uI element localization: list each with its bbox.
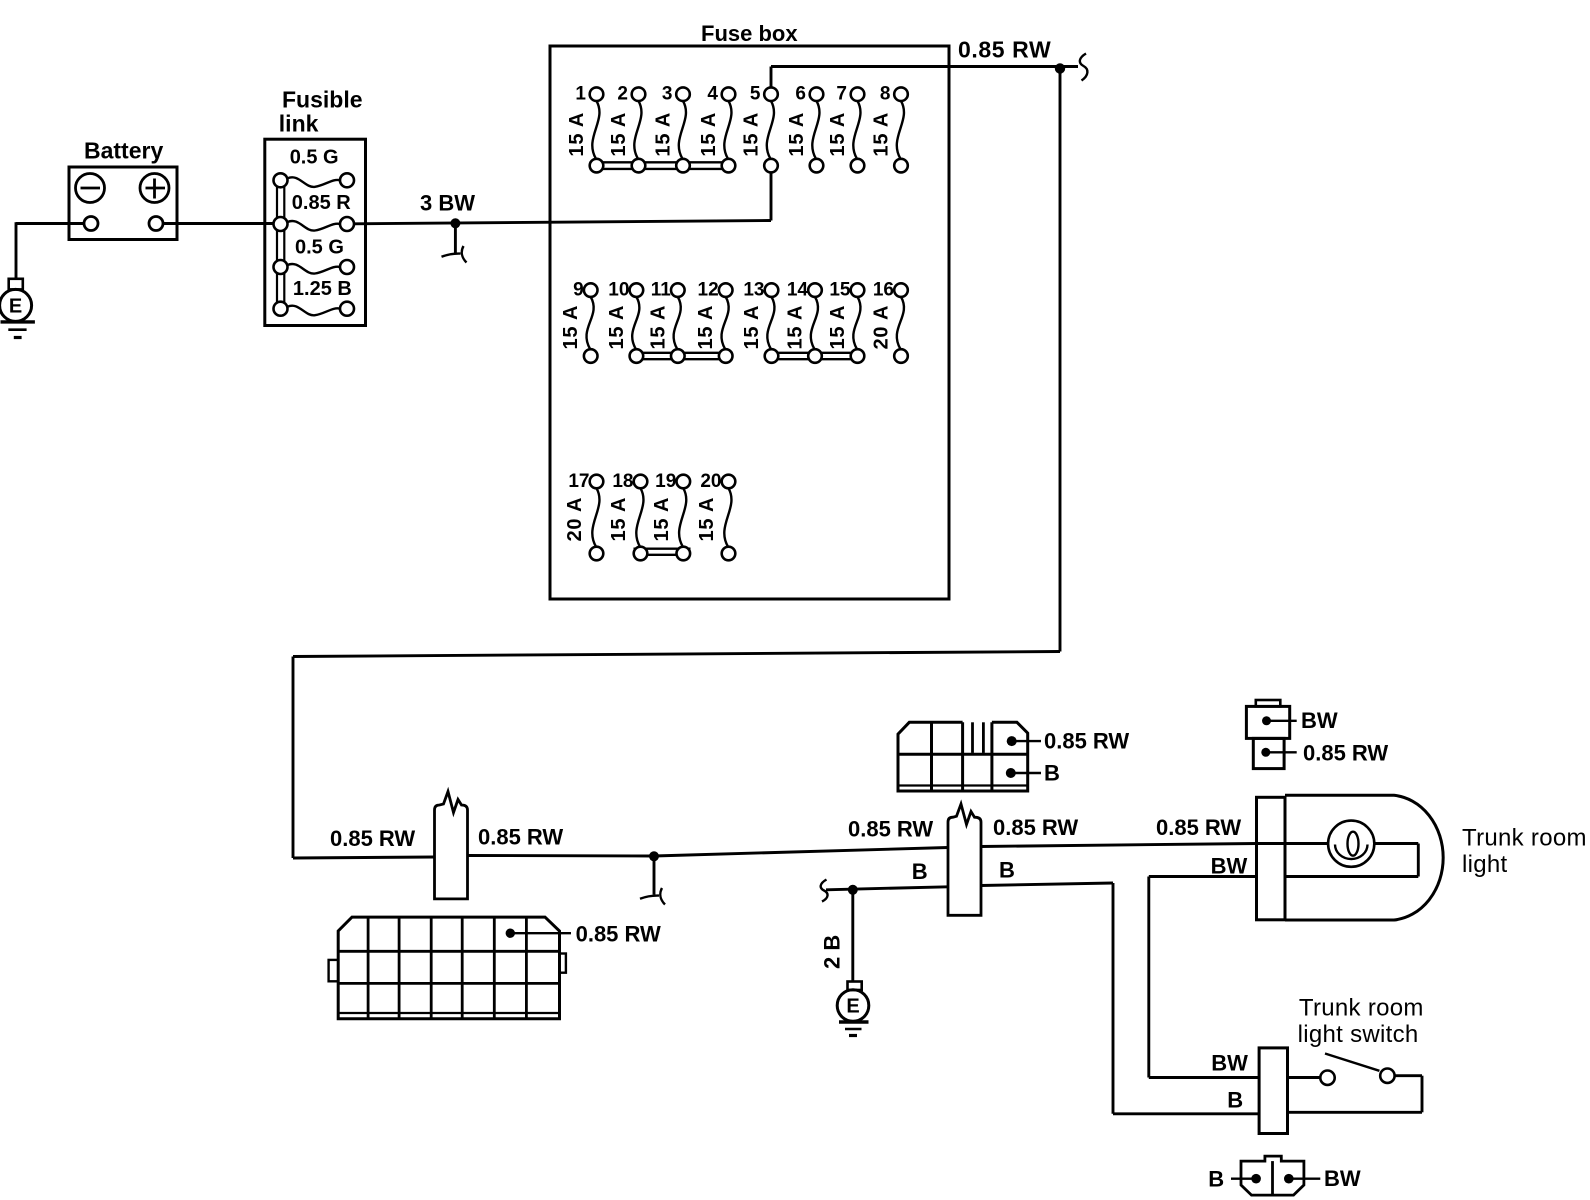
- battery: [69, 138, 177, 240]
- svg-text:15 A: 15 A: [871, 112, 893, 157]
- wire: [1288, 1076, 1423, 1113]
- fuse 3 (15 A): [653, 84, 690, 173]
- svg-text:15 A: 15 A: [566, 112, 588, 157]
- svg-text:20 A: 20 A: [564, 497, 586, 542]
- svg-text:light switch: light switch: [1298, 1021, 1419, 1048]
- svg-text:15 A: 15 A: [608, 112, 630, 157]
- svg-text:15 A: 15 A: [560, 305, 582, 350]
- in-line connector C2: [948, 804, 981, 915]
- leader: [1289, 1177, 1321, 1179]
- svg-text:19: 19: [655, 471, 676, 492]
- svg-text:BW: BW: [1211, 1051, 1248, 1076]
- svg-text:0.85 R: 0.85 R: [292, 192, 351, 214]
- svg-text:15 A: 15 A: [606, 305, 628, 350]
- svg-text:0.85 RW: 0.85 RW: [993, 815, 1078, 840]
- leader: [510, 932, 571, 934]
- pin dot BW: [1284, 1174, 1294, 1184]
- svg-text:4: 4: [707, 84, 718, 105]
- svg-text:link: link: [279, 111, 319, 137]
- switch contact 1: [1320, 1071, 1334, 1085]
- svg-text:E: E: [9, 296, 22, 318]
- fuse 17 (20 A): [564, 471, 603, 560]
- label Trunk room light: [1462, 825, 1587, 879]
- svg-text:15 A: 15 A: [741, 112, 763, 157]
- leader: [1231, 1177, 1256, 1179]
- junction dot: [848, 885, 858, 895]
- wire: [293, 67, 1060, 859]
- svg-text:B: B: [1044, 761, 1060, 786]
- svg-text:5: 5: [750, 84, 761, 105]
- svg-text:18: 18: [612, 471, 633, 492]
- fuse box: [550, 21, 949, 599]
- svg-text:0.85 RW: 0.85 RW: [848, 817, 933, 842]
- svg-text:0.85 RW: 0.85 RW: [478, 825, 563, 850]
- ground E (battery): [0, 279, 35, 338]
- svg-text:15 A: 15 A: [698, 112, 720, 157]
- svg-text:B: B: [912, 859, 928, 884]
- trunk room light switch connector: [1259, 1048, 1287, 1134]
- fuse 7 (15 A): [827, 84, 864, 173]
- svg-text:2: 2: [617, 84, 628, 105]
- fusible link element 0.5 G: [274, 237, 355, 275]
- harness continuation curl: [1080, 54, 1088, 81]
- fuse 18 (15 A): [608, 471, 647, 560]
- wire 0.85 RW fuse box output: [771, 65, 1078, 68]
- switch contact 2: [1380, 1069, 1394, 1083]
- fuse 12 (15 A): [695, 280, 732, 363]
- junction dot: [1055, 63, 1065, 73]
- fuse 10 (15 A): [606, 280, 643, 363]
- fuse 20 (15 A): [696, 471, 735, 560]
- svg-text:0.85 RW: 0.85 RW: [1303, 741, 1388, 766]
- wire B to switch: [981, 883, 1259, 1114]
- svg-text:15 A: 15 A: [785, 305, 807, 350]
- svg-text:B: B: [1208, 1167, 1224, 1192]
- in-line connector C1: [435, 792, 468, 899]
- fuse 14 (15 A): [785, 280, 822, 363]
- connector stub symbol: [640, 856, 665, 904]
- svg-text:Fusible: Fusible: [282, 87, 363, 113]
- svg-text:3: 3: [662, 84, 673, 105]
- svg-text:Trunk room: Trunk room: [1462, 825, 1587, 852]
- pin dot: [1007, 736, 1017, 746]
- svg-text:1: 1: [575, 84, 586, 105]
- svg-text:1.25 B: 1.25 B: [293, 278, 352, 300]
- fuse 4 (15 A): [698, 84, 735, 173]
- svg-text:15 A: 15 A: [647, 305, 669, 350]
- svg-text:15 A: 15 A: [651, 497, 673, 542]
- 2-pin connector: [1241, 1156, 1304, 1195]
- pin dot: [1006, 768, 1016, 778]
- svg-text:B: B: [1227, 1088, 1243, 1113]
- svg-text:15 A: 15 A: [786, 112, 808, 157]
- wire B: [826, 887, 948, 890]
- 6-cavity connector: [898, 722, 1028, 791]
- 18-cavity connector: [329, 917, 566, 1019]
- svg-text:B: B: [999, 858, 1015, 883]
- svg-text:15 A: 15 A: [608, 497, 630, 542]
- svg-text:12: 12: [698, 280, 719, 301]
- fusible link: [265, 87, 366, 326]
- fusible link bus: [277, 184, 284, 305]
- svg-text:BW: BW: [1301, 708, 1338, 733]
- svg-text:6: 6: [795, 84, 806, 105]
- svg-text:15 A: 15 A: [827, 305, 849, 350]
- wire 3 BW: [354, 221, 771, 224]
- wire: [163, 222, 274, 225]
- svg-text:0.85 RW: 0.85 RW: [1044, 729, 1129, 754]
- ground E (trunk harness): [837, 982, 869, 1036]
- fuse 16 (20 A): [871, 280, 908, 363]
- svg-text:9: 9: [573, 280, 584, 301]
- wire BW: [1149, 877, 1259, 1078]
- fuse 6 (15 A): [786, 84, 823, 173]
- svg-text:0.5 G: 0.5 G: [295, 237, 344, 259]
- svg-text:2 B: 2 B: [820, 935, 845, 969]
- svg-text:Trunk room: Trunk room: [1299, 995, 1424, 1022]
- wire: [654, 848, 948, 857]
- fuse 5 (15 A): [741, 84, 778, 173]
- wire: [1288, 1076, 1321, 1079]
- fusible link element 0.85 R: [274, 192, 355, 231]
- fuse 15 (15 A): [827, 280, 864, 363]
- svg-text:15 A: 15 A: [653, 112, 675, 157]
- fuse 2 (15 A): [608, 84, 645, 173]
- fuse 1 (15 A): [566, 84, 603, 173]
- label Trunk room light switch: [1298, 995, 1424, 1049]
- fuse 8 (15 A): [871, 84, 908, 173]
- fuse box bus bars: [590, 162, 865, 555]
- svg-text:13: 13: [743, 280, 764, 301]
- trunk room light: [1257, 795, 1444, 920]
- fuse 11 (15 A): [647, 280, 684, 363]
- 1-pin connector BW: [1246, 700, 1337, 738]
- svg-text:7: 7: [836, 84, 847, 105]
- svg-text:17: 17: [568, 471, 589, 492]
- svg-text:10: 10: [608, 280, 629, 301]
- svg-text:0.85 RW: 0.85 RW: [330, 826, 415, 851]
- svg-text:0.85 RW: 0.85 RW: [958, 37, 1051, 63]
- fuse 9 (15 A): [560, 280, 597, 363]
- svg-text:0.5 G: 0.5 G: [290, 147, 339, 169]
- wire: [468, 854, 655, 857]
- svg-text:BW: BW: [1211, 854, 1248, 879]
- svg-text:Battery: Battery: [84, 138, 163, 164]
- svg-text:8: 8: [880, 84, 891, 105]
- pin dot: [506, 929, 515, 938]
- junction dot: [450, 218, 460, 228]
- 1-pin connector 0.85 RW: [1253, 738, 1388, 768]
- wire: [16, 222, 84, 279]
- svg-text:light: light: [1462, 851, 1508, 878]
- svg-text:20: 20: [700, 471, 721, 492]
- fusible link element 0.5 G: [274, 147, 355, 188]
- junction dot: [649, 851, 659, 861]
- leader: [1011, 772, 1041, 774]
- svg-text:Fuse box: Fuse box: [701, 21, 798, 46]
- svg-text:16: 16: [873, 280, 894, 301]
- svg-text:3 BW: 3 BW: [420, 191, 475, 216]
- svg-text:BW: BW: [1324, 1166, 1361, 1191]
- svg-text:E: E: [846, 996, 859, 1018]
- fusible link element 1.25 B: [274, 278, 355, 316]
- svg-text:20 A: 20 A: [871, 305, 893, 350]
- harness continuation curl: [821, 880, 828, 902]
- svg-text:15 A: 15 A: [696, 497, 718, 542]
- switch blade: [1325, 1054, 1379, 1071]
- wire 0.85 RW to trunk light: [981, 844, 1257, 847]
- svg-text:11: 11: [651, 280, 672, 301]
- connector stub symbol: [442, 223, 467, 262]
- svg-text:15: 15: [829, 280, 851, 301]
- svg-text:0.85 RW: 0.85 RW: [1156, 815, 1241, 840]
- svg-text:0.85 RW: 0.85 RW: [576, 922, 661, 947]
- svg-text:15 A: 15 A: [827, 112, 849, 157]
- fuse 19 (15 A): [651, 471, 690, 560]
- fuse 13 (15 A): [741, 280, 778, 363]
- wire 2 B to ground: [851, 890, 854, 982]
- pin dot B: [1251, 1174, 1261, 1184]
- svg-text:15 A: 15 A: [741, 305, 763, 350]
- svg-text:14: 14: [787, 280, 809, 301]
- svg-text:15 A: 15 A: [695, 305, 717, 350]
- wire fuse 5 feed riser: [770, 67, 773, 221]
- leader: [1012, 740, 1041, 742]
